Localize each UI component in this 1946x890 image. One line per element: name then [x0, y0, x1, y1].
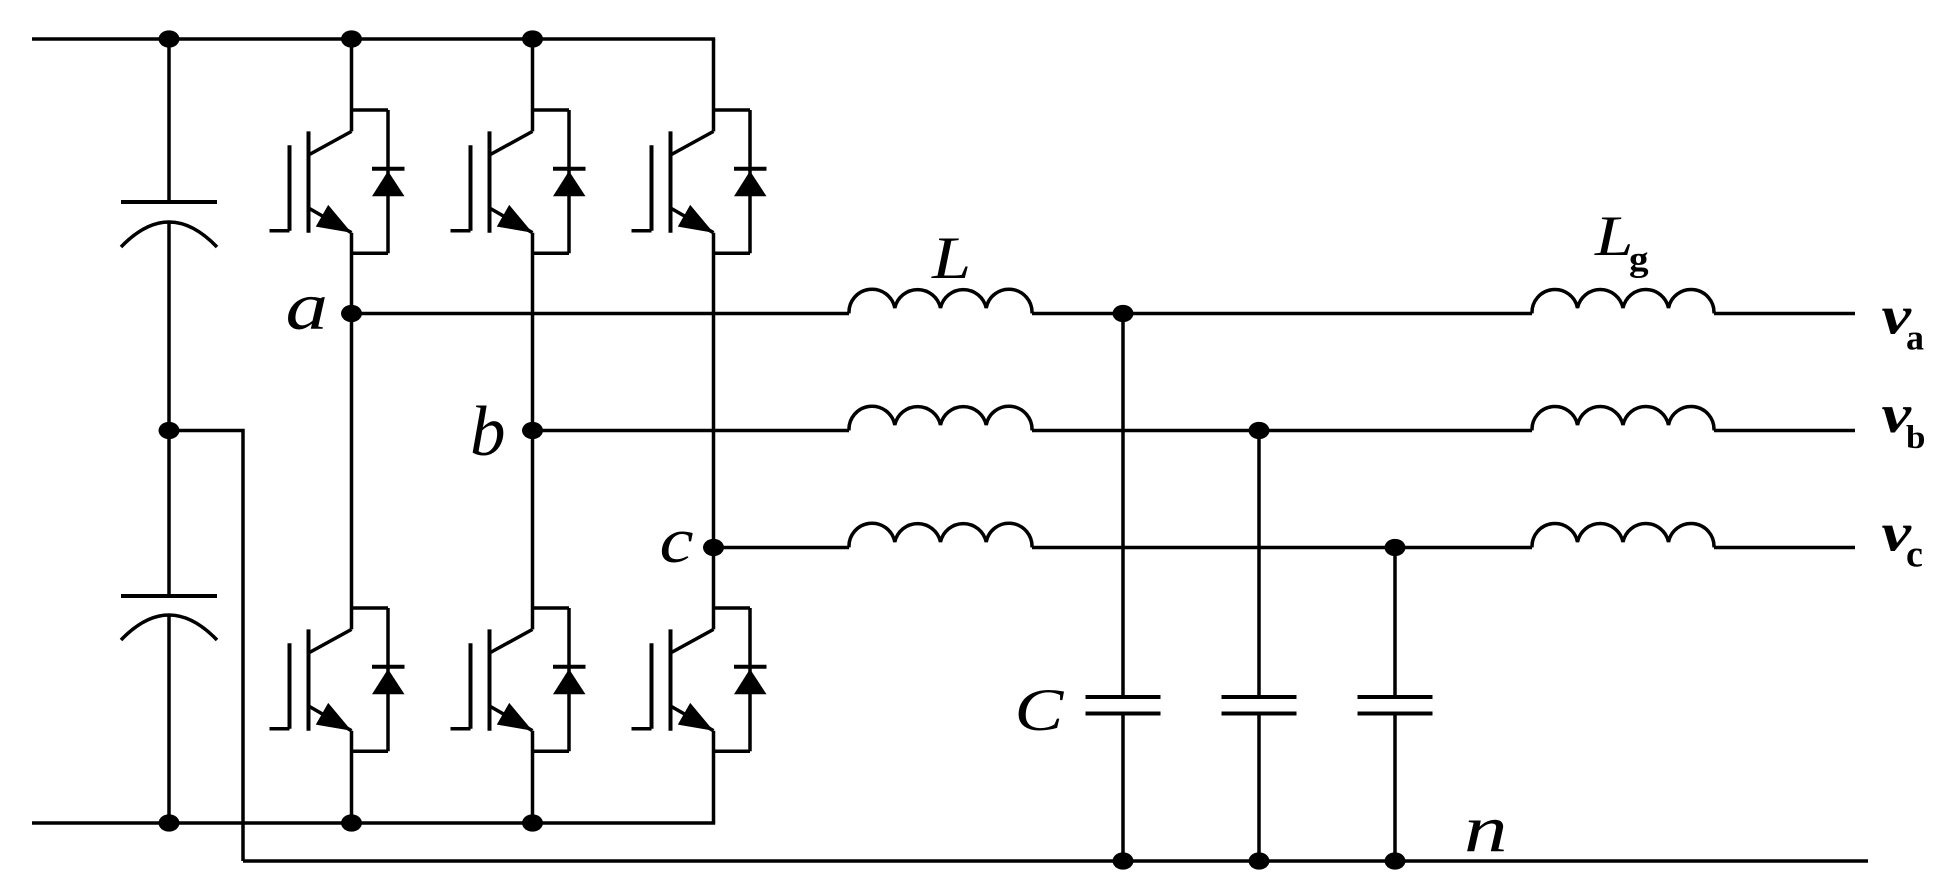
- junction dot (phase a filter cap tap): [1113, 305, 1134, 322]
- diode D1 (antiparallel, upper leg a): [352, 110, 405, 253]
- junction dot (phase b cap at neutral): [1249, 852, 1270, 869]
- svg-text:b: b: [1906, 420, 1925, 456]
- junction dot (leg a at DC+): [341, 30, 362, 47]
- node b junction dot: [522, 422, 543, 439]
- capacitor C (phase a filter): [1086, 314, 1161, 862]
- transistor Q3 (upper IGBT leg c): [632, 131, 714, 232]
- capacitor Cdc2 (lower DC-link): [121, 431, 217, 824]
- capacitor Cdc1 (upper DC-link): [121, 39, 217, 431]
- diode D6 (antiparallel, lower leg c): [714, 608, 767, 751]
- svg-text:g: g: [1629, 240, 1649, 279]
- wire: leg b emitter to DC-: [531, 731, 535, 823]
- label va (grid voltage a): [1882, 286, 1925, 357]
- wire: phase a to filter inductor: [352, 312, 850, 316]
- label vc (grid voltage c): [1882, 503, 1923, 575]
- wire: phase b to filter inductor: [533, 429, 850, 433]
- transistor Q4 (lower IGBT leg a): [270, 629, 352, 730]
- wire: leg c collector (top): [712, 39, 716, 131]
- transistor Q1 (upper IGBT leg a): [270, 131, 352, 232]
- wire: leg c emitter to DC-: [712, 731, 716, 823]
- junction dot (DC midpoint): [159, 422, 180, 439]
- inductor Lg (phase b): [1532, 406, 1714, 430]
- diode D4 (antiparallel, lower leg a): [352, 608, 405, 751]
- diode D2 (antiparallel, upper leg b): [533, 110, 586, 253]
- wire: leg a emitter to DC-: [350, 731, 354, 823]
- inductor Lg (phase a): [1532, 289, 1714, 313]
- wire: phase b output: [1714, 429, 1855, 433]
- inductor L (phase a): [849, 289, 1032, 313]
- junction dot (leg b at DC+): [522, 30, 543, 47]
- wire: leg b collector (top): [531, 39, 535, 131]
- transistor Q2 (upper IGBT leg b): [451, 131, 533, 232]
- transistor Q5 (lower IGBT leg b): [451, 629, 533, 730]
- wire: DC midpoint to neutral: [169, 431, 243, 862]
- wire: leg c midpoint: [712, 233, 716, 630]
- diode D3 (antiparallel, upper leg c): [714, 110, 767, 253]
- svg-text:a: a: [286, 268, 328, 344]
- label Lg (grid inductor): [1594, 205, 1649, 279]
- junction dot (phase b filter cap tap): [1249, 422, 1270, 439]
- wire: phase a inductor to grid inductor: [1032, 312, 1532, 316]
- wire: phase c inductor to grid inductor: [1032, 546, 1532, 550]
- capacitor C (phase b filter): [1222, 431, 1297, 862]
- junction dot (phase c cap at neutral): [1385, 852, 1406, 869]
- wire: neutral line n: [243, 859, 1868, 863]
- wire: DC+ top rail: [32, 37, 715, 41]
- wire: phase b inductor to grid inductor: [1032, 429, 1532, 433]
- capacitor C (phase c filter): [1358, 548, 1433, 862]
- svg-text:n: n: [1464, 792, 1508, 866]
- junction dot (leg b at DC-): [522, 814, 543, 831]
- transistor Q6 (lower IGBT leg c): [632, 629, 714, 730]
- inductor Lg (phase c): [1532, 523, 1714, 547]
- junction dot (phase a cap at neutral): [1113, 852, 1134, 869]
- svg-text:L: L: [931, 226, 971, 292]
- svg-text:c: c: [1906, 534, 1923, 576]
- wire: leg b midpoint: [531, 233, 535, 630]
- wire: phase c output: [1714, 546, 1855, 550]
- wire: phase c to filter inductor: [714, 546, 850, 550]
- wire: leg a collector (top): [350, 39, 354, 131]
- wire: DC- bottom rail: [32, 821, 715, 825]
- node c junction dot: [703, 539, 724, 556]
- junction dot (DC- at Cdc): [159, 814, 180, 831]
- svg-text:a: a: [1906, 318, 1924, 358]
- svg-text:c: c: [660, 505, 694, 576]
- svg-text:C: C: [1015, 677, 1065, 743]
- junction dot (phase c filter cap tap): [1385, 539, 1406, 556]
- svg-text:b: b: [470, 393, 506, 471]
- junction dot (DC+ at Cdc): [159, 30, 180, 47]
- junction dot (leg a at DC-): [341, 814, 362, 831]
- diode D5 (antiparallel, lower leg b): [533, 608, 586, 751]
- node a junction dot: [341, 305, 362, 322]
- inductor L (phase c): [849, 523, 1032, 547]
- svg-text:L: L: [1594, 205, 1633, 268]
- label vb (grid voltage b): [1882, 385, 1926, 456]
- inductor L (phase b): [849, 406, 1032, 430]
- wire: phase a output: [1714, 312, 1855, 316]
- wire: leg a midpoint: [350, 233, 354, 630]
